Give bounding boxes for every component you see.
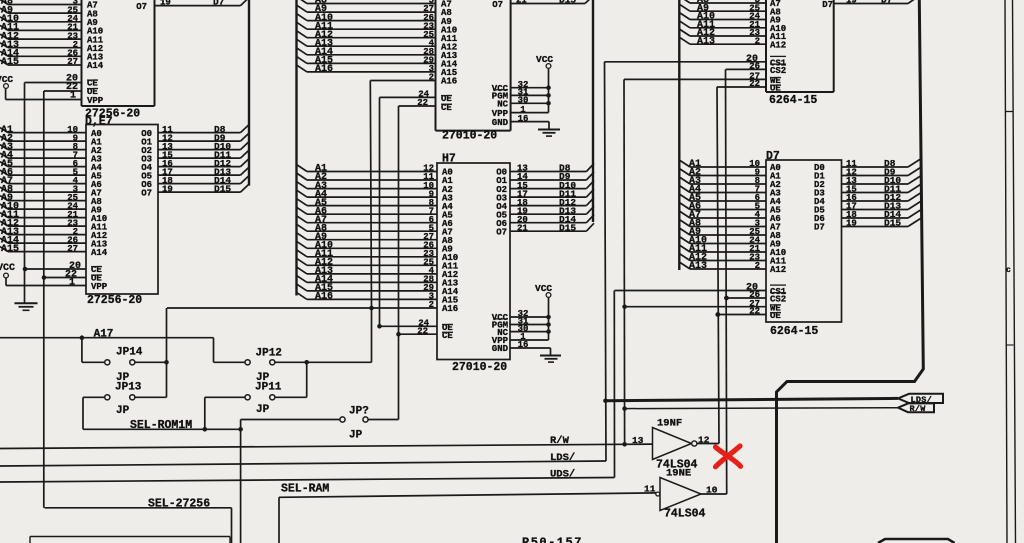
svg-text:D15: D15	[559, 222, 576, 233]
svg-text:JP12: JP12	[256, 348, 282, 360]
svg-text:JP: JP	[116, 405, 130, 417]
svg-text:2: 2	[755, 37, 760, 47]
svg-text:D7: D7	[814, 223, 825, 233]
svg-text:26: 26	[749, 62, 760, 72]
svg-text:74LS04: 74LS04	[664, 508, 706, 521]
svg-text:VCC: VCC	[0, 263, 15, 274]
svg-text:A16: A16	[315, 292, 333, 303]
svg-text:JP11: JP11	[255, 382, 282, 394]
svg-text:c: c	[1006, 266, 1011, 275]
svg-text:D7: D7	[881, 0, 893, 6]
svg-text:O7: O7	[496, 227, 507, 237]
svg-text:CS2: CS2	[770, 66, 786, 76]
svg-text:JP: JP	[349, 430, 363, 442]
svg-text:16: 16	[518, 340, 529, 350]
svg-text:A16: A16	[442, 304, 458, 314]
svg-text:21: 21	[516, 0, 527, 6]
svg-text:27010-20: 27010-20	[452, 361, 507, 374]
svg-text:A17: A17	[94, 329, 114, 341]
svg-text:H7: H7	[442, 153, 456, 166]
svg-text:A13: A13	[697, 37, 715, 48]
svg-text:11: 11	[644, 484, 656, 495]
svg-text:A16: A16	[441, 77, 457, 87]
svg-text:A15: A15	[1, 244, 19, 255]
svg-text:JP?: JP?	[349, 406, 369, 418]
svg-text:22: 22	[749, 79, 760, 89]
svg-text:22: 22	[749, 307, 760, 317]
svg-text:2: 2	[755, 261, 760, 271]
svg-text:6264-15: 6264-15	[769, 94, 817, 107]
svg-text:JP13: JP13	[115, 382, 142, 394]
svg-text:19: 19	[846, 0, 857, 6]
svg-text:VCC: VCC	[536, 54, 553, 65]
svg-text:19NF: 19NF	[657, 418, 682, 430]
svg-text:19: 19	[162, 184, 173, 194]
svg-text:SEL-27256: SEL-27256	[148, 498, 210, 511]
svg-text:VPP: VPP	[91, 282, 108, 292]
svg-text:SEL-ROM1M: SEL-ROM1M	[130, 419, 192, 432]
svg-text:D15: D15	[214, 183, 231, 194]
svg-text:6264-15: 6264-15	[770, 325, 818, 338]
svg-text:O7: O7	[136, 2, 147, 12]
svg-text:27: 27	[67, 57, 78, 67]
svg-text:UDS/: UDS/	[550, 469, 575, 481]
svg-text:D7: D7	[213, 0, 225, 8]
svg-text:JP: JP	[256, 404, 270, 416]
svg-text:22: 22	[417, 98, 428, 108]
svg-text:19: 19	[846, 219, 857, 229]
svg-text:1: 1	[70, 91, 76, 102]
svg-text:D7: D7	[822, 0, 833, 10]
svg-text:D15: D15	[559, 0, 576, 6]
svg-text:LDS/: LDS/	[550, 452, 575, 464]
svg-text:R/W: R/W	[550, 435, 570, 447]
svg-text:22: 22	[417, 326, 428, 336]
svg-text:19NE: 19NE	[666, 468, 691, 480]
svg-text:GND: GND	[492, 118, 509, 128]
svg-text:R/W: R/W	[910, 404, 927, 414]
svg-text:A13: A13	[689, 261, 707, 272]
svg-text:A12: A12	[770, 265, 786, 275]
svg-text:19: 19	[160, 0, 171, 8]
svg-text:D,E7: D,E7	[85, 116, 113, 129]
svg-text:16: 16	[518, 114, 529, 124]
svg-text:21: 21	[517, 223, 528, 233]
svg-text:P50-157: P50-157	[522, 536, 583, 543]
svg-text:SEL-RAM: SEL-RAM	[281, 483, 329, 496]
svg-text:A16: A16	[315, 64, 333, 75]
svg-text:A14: A14	[91, 248, 108, 258]
svg-text:A12: A12	[770, 41, 786, 51]
svg-text:VPP: VPP	[87, 96, 104, 106]
svg-text:O7: O7	[492, 0, 503, 10]
svg-text:1: 1	[69, 278, 75, 289]
svg-text:27010-20: 27010-20	[442, 130, 497, 143]
svg-text:A14: A14	[87, 61, 104, 71]
svg-text:O7: O7	[141, 188, 152, 198]
svg-text:D7: D7	[766, 150, 780, 163]
svg-text:A15: A15	[1, 57, 19, 68]
svg-text:27256-20: 27256-20	[87, 294, 142, 307]
svg-text:13: 13	[632, 435, 644, 446]
svg-text:JP14: JP14	[116, 347, 143, 359]
svg-text:D15: D15	[884, 218, 901, 229]
svg-text:GND: GND	[492, 344, 509, 354]
svg-text:27: 27	[67, 244, 78, 254]
